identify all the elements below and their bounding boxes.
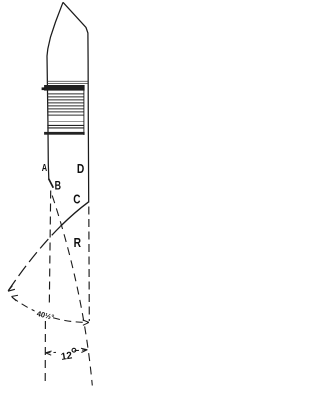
white backing for 40.5 label: [35, 308, 52, 321]
arc 40.5 degrees: [12, 297, 88, 322]
svg-text:D: D: [77, 161, 84, 176]
band right frame: [83, 85, 85, 135]
label 12 deg: [60, 348, 77, 363]
swing line from C solid part: [60, 202, 88, 227]
tower right edge: [63, 2, 89, 202]
band left lug: [42, 87, 45, 90]
swing line from C dashed part: [8, 226, 60, 290]
svg-text:B: B: [55, 178, 62, 192]
tower left edge: [47, 2, 63, 179]
plumb dashed line lower segment: [44, 321, 46, 386]
arc right arrowhead: [83, 320, 89, 325]
arrowhead swing line: [8, 286, 15, 292]
svg-text:R: R: [74, 235, 82, 250]
radius dashed line R: [52, 196, 92, 386]
dimension dash right: [75, 349, 87, 352]
band bottom bar: [44, 132, 85, 135]
tower bottom-left tip wedge: [49, 179, 54, 188]
band top dark bar: [44, 85, 85, 91]
band stripes: [47, 94, 84, 128]
dimension dash left: [46, 351, 56, 353]
svg-text:12: 12: [60, 350, 73, 363]
svg-text:A: A: [42, 163, 47, 174]
dimension right arrowhead: [81, 348, 87, 352]
arc left arrowhead: [12, 295, 19, 301]
plumb dashed line right: [88, 207, 91, 322]
diagram: leaning rocket/tower with swing angles: [0, 0, 100, 388]
svg-text:C: C: [73, 192, 81, 207]
dimension left arrowhead: [45, 351, 51, 355]
plumb dashed line left: [49, 191, 51, 315]
band top rim lines: [47, 81, 87, 83]
